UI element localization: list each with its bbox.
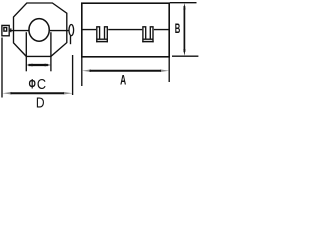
left latch tick [10,28,12,32]
svg-text:C: C [37,75,46,92]
A dimension line [90,70,162,72]
front view center line right segment [50,30,70,32]
left latch tab hole [4,28,7,32]
B dimension line [183,6,185,52]
B extension line top [170,2,197,4]
D dimension line [11,92,65,94]
svg-text:A: A [120,74,127,89]
phiC dimension arrows [26,64,32,67]
side view rectangle [82,3,169,57]
U clip slot 2 [142,27,154,42]
A dimension arrows [82,69,91,72]
D extension line left [1,38,3,98]
B extension line bottom [172,55,198,57]
svg-text:Φ: Φ [29,76,36,92]
B dimension arrows [183,3,185,10]
svg-text:D: D [36,94,45,111]
D dimension arrows [2,92,11,95]
side view center line segments [82,29,169,31]
front view center line left segment [3,30,29,32]
A extension line left [81,57,83,86]
U clip slot 1 [96,27,108,42]
A extension line right [168,57,170,82]
svg-text:B: B [175,22,181,37]
phiC extension line left [25,32,27,71]
right latch stem [70,36,72,45]
right latch ellipse [69,25,74,36]
phiC extension line right [50,32,52,71]
left latch tab [2,25,9,35]
front view octagonal body outline [14,3,67,56]
phiC dimension line [29,64,48,66]
D extension line right [72,55,74,95]
front view hole circle [29,19,49,42]
